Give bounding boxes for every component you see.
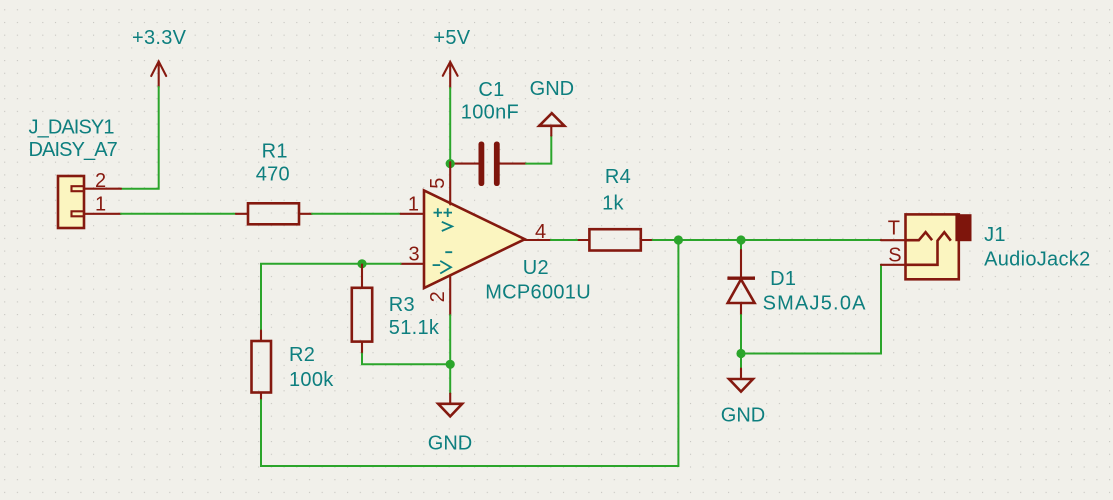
wire pin3 node [261, 264, 401, 331]
wire sleeve to jack [741, 265, 881, 354]
svg-text:GND: GND [530, 78, 574, 100]
wire R3 bottom to pin2 net [362, 354, 450, 365]
svg-text:1k: 1k [602, 193, 624, 215]
svg-text:MCP6001U: MCP6001U [485, 282, 591, 304]
resistor R2 100k [252, 331, 335, 401]
power symbol +5V [433, 27, 470, 88]
wire D1 bottom [740, 315, 742, 369]
ground GND near C1 [530, 78, 574, 136]
svg-text:100k: 100k [289, 369, 334, 391]
wire C1 to GND symbol [526, 136, 551, 164]
svg-text:+3.3V: +3.3V [132, 27, 187, 49]
pin 3 [401, 263, 424, 265]
resistor R1 470 [236, 141, 312, 225]
svg-text:C1: C1 [478, 79, 504, 101]
wire pin2 down [449, 315, 451, 394]
svg-text:4: 4 [535, 221, 546, 243]
capacitor C1 100nF [450, 79, 526, 186]
pin T [881, 239, 906, 241]
wire R4 to jack T pin [653, 239, 881, 241]
svg-text:GND: GND [428, 433, 472, 455]
V- mark pin 2 [440, 252, 452, 273]
plus mark input 1 [434, 208, 443, 217]
V+ mark pin 5 [442, 208, 452, 231]
wire +5V down to C1 node [449, 88, 451, 162]
wire D1 top [740, 240, 742, 250]
power symbol +3.3V [132, 27, 187, 87]
op-amp U2 MCP6001U [401, 162, 591, 315]
wire op-amp output to R4 [551, 239, 579, 241]
junction node D1/sleeve [736, 349, 745, 358]
pin 1 [401, 213, 424, 215]
svg-text:R2: R2 [289, 344, 315, 366]
svg-text:+5V: +5V [433, 27, 470, 49]
junction node feedback [674, 235, 683, 244]
minus mark input 3 [433, 264, 441, 266]
svg-text:DAISY_A7: DAISY_A7 [29, 139, 118, 161]
junction node D1 top [736, 235, 745, 244]
svg-text:R3: R3 [389, 294, 415, 316]
wire feedback loop R2 bottom to output [261, 240, 678, 466]
resistor R4 1k [579, 166, 653, 250]
svg-text:AudioJack2: AudioJack2 [984, 249, 1090, 271]
svg-text:3: 3 [409, 244, 420, 266]
svg-text:R4: R4 [605, 166, 631, 188]
tip contact [906, 232, 933, 240]
svg-text:D1: D1 [770, 268, 796, 290]
svg-text:1: 1 [95, 194, 106, 216]
diode D1 SMAJ5.0A [727, 250, 866, 315]
resistor R3 51.1k [352, 265, 440, 354]
junction node R3/pin2 [446, 360, 455, 369]
svg-text:5: 5 [427, 177, 449, 188]
ground GND below op-amp [428, 394, 472, 455]
junction node pin3/R3 [357, 259, 366, 268]
pin 5 [449, 162, 451, 204]
ground GND below D1 [721, 369, 765, 427]
wire +3.3V to connector pin 2 [121, 87, 159, 189]
connector J_DAISY1 [29, 117, 122, 229]
svg-text:U2: U2 [523, 257, 549, 279]
svg-text:J1: J1 [984, 224, 1006, 246]
wire connector pin1 to R1 [121, 213, 236, 215]
svg-text:100nF: 100nF [461, 101, 519, 123]
pin 4 [525, 239, 551, 241]
svg-text:2: 2 [427, 291, 449, 302]
sleeve contact [906, 232, 951, 265]
svg-text:T: T [888, 218, 901, 240]
svg-text:1: 1 [408, 193, 419, 215]
connector J1 AudioJack2 [881, 214, 1091, 279]
svg-text:2: 2 [95, 170, 106, 192]
junction node C1/+5V/pin5 [446, 159, 455, 168]
svg-text:S: S [888, 245, 902, 267]
svg-text:GND: GND [721, 405, 765, 427]
svg-text:J_DAISY1: J_DAISY1 [29, 117, 115, 139]
svg-text:470: 470 [256, 164, 290, 186]
svg-text:R1: R1 [262, 141, 288, 163]
pin S [881, 264, 906, 266]
pin 2 [449, 276, 451, 316]
wire R1 to op-amp pin 1 [312, 213, 401, 215]
svg-text:51.1k: 51.1k [389, 317, 440, 339]
svg-text:SMAJ5.0A: SMAJ5.0A [763, 293, 867, 315]
